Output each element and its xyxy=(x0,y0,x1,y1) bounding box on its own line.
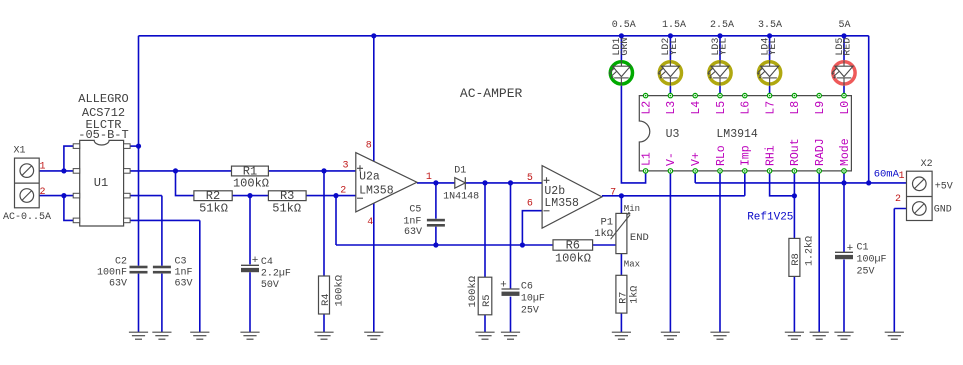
svg-text:100kΩ: 100kΩ xyxy=(467,276,479,308)
wire VCC left vertical to C2 xyxy=(138,36,140,332)
svg-text:U3: U3 xyxy=(666,128,680,141)
wire C1 connection xyxy=(843,183,845,332)
svg-text:25V: 25V xyxy=(521,306,539,317)
svg-text:L1: L1 xyxy=(640,152,653,166)
wire P1 to R7 to ground xyxy=(620,196,622,332)
junction rail LD3 xyxy=(717,33,722,38)
connector X2 xyxy=(907,171,933,220)
svg-text:1kΩ: 1kΩ xyxy=(629,286,641,304)
LED LD3 YEL xyxy=(707,60,731,86)
svg-text:R7: R7 xyxy=(618,292,629,304)
capacitor C1 xyxy=(835,252,853,259)
wire C5 drop xyxy=(435,183,437,245)
wire LD1 cathode to U3 L1 xyxy=(621,86,645,183)
junction R2-R3-C4 xyxy=(247,193,252,198)
svg-text:100kΩ: 100kΩ xyxy=(233,177,269,191)
ground C4 xyxy=(240,332,259,339)
junction VCC U1-pin8 xyxy=(136,144,141,149)
wire LD4 cathode xyxy=(769,86,771,96)
wire R1 to U2a noninverting input xyxy=(268,170,355,172)
pin U3 L8 (top) xyxy=(792,93,796,97)
svg-text:25V: 25V xyxy=(857,267,875,278)
svg-text:L8: L8 xyxy=(789,101,802,115)
junction C5 top xyxy=(433,180,438,185)
svg-text:-05-B-T: -05-B-T xyxy=(78,128,128,142)
svg-text:1.5A: 1.5A xyxy=(662,20,686,31)
capacitor C3 xyxy=(153,266,171,274)
wire U2a feedback vertical xyxy=(335,196,337,245)
svg-text:R4: R4 xyxy=(320,293,332,306)
svg-text:+: + xyxy=(252,255,259,267)
junction U2b pin6 on feedback xyxy=(520,242,525,247)
wire U2a output to D1 xyxy=(417,182,455,184)
wire C4 drop xyxy=(249,196,251,333)
svg-text:5: 5 xyxy=(527,173,533,184)
pin U3 L6 (top) xyxy=(743,93,747,97)
svg-text:Max: Max xyxy=(624,260,640,270)
svg-text:2: 2 xyxy=(340,185,346,196)
svg-text:3: 3 xyxy=(342,160,348,171)
svg-text:1: 1 xyxy=(898,171,904,182)
svg-text:3.5A: 3.5A xyxy=(758,20,782,31)
pin U3 L0 (top) xyxy=(842,93,846,97)
wire R5 drop xyxy=(484,183,486,332)
pin U3 L3 (top) xyxy=(668,93,672,97)
svg-text:L4: L4 xyxy=(690,101,703,115)
svg-text:V+: V+ xyxy=(690,152,703,166)
svg-text:4: 4 xyxy=(367,217,373,228)
diode D1 xyxy=(455,177,466,189)
op-amp U2b xyxy=(542,166,602,229)
svg-text:RADJ: RADJ xyxy=(814,138,827,166)
svg-text:+: + xyxy=(847,243,854,255)
svg-text:1nF: 1nF xyxy=(175,268,193,279)
plus U2a xyxy=(357,165,363,171)
resistor R8 xyxy=(789,238,800,276)
svg-text:V-: V- xyxy=(665,152,678,166)
ground U2a pin4 xyxy=(364,332,383,339)
svg-text:U2a: U2a xyxy=(359,171,380,184)
svg-text:P1: P1 xyxy=(600,217,613,229)
resistor R3 xyxy=(268,191,306,201)
wire +5V horizontal to X2 xyxy=(695,182,906,184)
pin U3 ROut (bottom) xyxy=(792,169,796,173)
LED LD1 GRN xyxy=(609,60,633,86)
wire LD2 cathode xyxy=(669,86,671,96)
plus U2b xyxy=(544,177,550,183)
svg-text:L7: L7 xyxy=(764,101,777,115)
svg-text:L9: L9 xyxy=(814,101,827,115)
wire U1 GND pin xyxy=(130,220,200,332)
junction R5 top xyxy=(482,180,487,185)
minus U2b xyxy=(544,210,550,212)
svg-text:100kΩ: 100kΩ xyxy=(555,252,591,266)
svg-text:100µF: 100µF xyxy=(857,255,887,266)
svg-text:51kΩ: 51kΩ xyxy=(272,201,301,215)
svg-text:1N4148: 1N4148 xyxy=(443,192,479,203)
wire LD1 anode xyxy=(620,36,622,60)
svg-text:X1: X1 xyxy=(14,146,26,157)
svg-text:END: END xyxy=(630,232,649,244)
svg-text:1: 1 xyxy=(39,162,45,173)
svg-text:RED: RED xyxy=(843,38,854,56)
LED LD5 RED xyxy=(831,60,855,86)
junction VIOUT xyxy=(173,168,178,173)
svg-text:Imp: Imp xyxy=(740,145,753,166)
svg-text:51kΩ: 51kΩ xyxy=(199,201,228,215)
svg-text:C6: C6 xyxy=(521,282,533,293)
LED LD2 YEL xyxy=(658,60,682,86)
wire U3 V- to ground xyxy=(669,171,671,332)
wire C6 drop xyxy=(510,183,512,332)
svg-text:RLo: RLo xyxy=(715,145,728,166)
svg-text:GRN: GRN xyxy=(620,38,631,56)
wire U3 RADJ to ground xyxy=(818,171,820,332)
svg-text:63V: 63V xyxy=(404,227,422,238)
svg-text:R5: R5 xyxy=(481,294,493,307)
wire U2a pin4 to ground xyxy=(373,203,375,332)
ground R8 xyxy=(785,332,804,339)
wire D1 cathode to U2b input xyxy=(465,182,542,184)
junction R4 top xyxy=(321,168,326,173)
svg-text:R8: R8 xyxy=(790,253,802,266)
pin U3 L2 (top) xyxy=(643,93,647,97)
capacitor C4 xyxy=(241,265,259,272)
wire X2 GND to ground xyxy=(894,209,906,333)
svg-text:AC-0..5A: AC-0..5A xyxy=(3,212,51,223)
pin U3 L1 (bottom) xyxy=(643,169,647,173)
svg-text:7: 7 xyxy=(610,187,616,198)
potentiometer P1 xyxy=(611,212,631,254)
svg-text:2: 2 xyxy=(895,194,901,205)
resistor R4 xyxy=(319,276,330,314)
wire U3 V+ pin drop xyxy=(694,171,696,183)
junction rail LD2 xyxy=(668,33,673,38)
pin U3 V- (bottom) xyxy=(668,169,672,173)
pin U3 L5 (top) xyxy=(718,93,722,97)
svg-text:U1: U1 xyxy=(94,176,108,190)
wire +5V right rail drop xyxy=(868,36,870,183)
svg-text:ALLEGRO: ALLEGRO xyxy=(78,92,128,106)
svg-text:D1: D1 xyxy=(454,165,466,176)
svg-text:X2: X2 xyxy=(921,159,933,170)
resistor R5 xyxy=(478,277,492,315)
svg-text:6: 6 xyxy=(527,199,533,210)
wire LD4 anode xyxy=(769,36,771,60)
svg-text:+5V: +5V xyxy=(935,182,953,193)
junction rail LD1 xyxy=(619,33,624,38)
svg-text:GND: GND xyxy=(934,205,952,216)
svg-text:AC-AMPER: AC-AMPER xyxy=(460,86,523,101)
svg-text:YEL: YEL xyxy=(768,38,779,56)
svg-text:LM3914: LM3914 xyxy=(716,128,758,141)
svg-text:Ref1V25: Ref1V25 xyxy=(747,212,793,224)
svg-text:1.2kΩ: 1.2kΩ xyxy=(803,236,815,266)
resistor R1 xyxy=(232,166,269,176)
svg-text:C5: C5 xyxy=(409,204,421,215)
pin U3 RLo (bottom) xyxy=(718,169,722,173)
svg-text:Mode: Mode xyxy=(839,138,852,166)
svg-text:1: 1 xyxy=(426,172,432,183)
svg-text:1nF: 1nF xyxy=(403,216,421,227)
junction right rail on +5V xyxy=(866,180,871,185)
pin U3 Mode (bottom) xyxy=(842,169,846,173)
wire R6 to P1 xyxy=(593,244,617,246)
svg-text:50V: 50V xyxy=(261,280,279,291)
resistor R6 xyxy=(553,240,593,250)
resistor R7 xyxy=(616,275,627,313)
svg-text:R6: R6 xyxy=(566,239,580,253)
wire LD2 anode xyxy=(669,36,671,60)
wire LD5 anode xyxy=(843,36,845,60)
ground R7 xyxy=(612,332,631,339)
wire U1 pin8 to VCC xyxy=(130,145,138,147)
wire X1 pin2 to U1 xyxy=(39,196,73,221)
IC U3 LM3914 xyxy=(639,96,851,171)
junction feedback at U2a xyxy=(333,193,338,198)
junction Mode-C1 on +5V xyxy=(841,180,846,185)
wire U2b pin6 xyxy=(522,211,542,245)
svg-text:1kΩ: 1kΩ xyxy=(594,228,613,240)
svg-text:8: 8 xyxy=(366,141,372,152)
svg-text:L5: L5 xyxy=(715,101,728,115)
svg-text:C4: C4 xyxy=(261,257,273,268)
svg-text:100nF: 100nF xyxy=(97,268,127,279)
op-amp U2a xyxy=(356,153,417,212)
wire +5V top rail xyxy=(139,35,869,37)
svg-text:Min: Min xyxy=(624,204,640,214)
LED LD4 YEL xyxy=(757,60,781,86)
ground C6 xyxy=(501,332,520,339)
resistor R2 xyxy=(194,191,232,201)
svg-text:10µF: 10µF xyxy=(521,294,545,305)
capacitor C2 xyxy=(130,266,148,274)
svg-text:C1: C1 xyxy=(857,243,869,254)
wire LD5 cathode xyxy=(843,86,845,96)
svg-text:ROut: ROut xyxy=(789,138,802,166)
junction X1-2 branch xyxy=(61,193,66,198)
svg-text:RHi: RHi xyxy=(764,145,777,166)
wire U3 Mode pin drop xyxy=(843,171,845,183)
svg-text:63V: 63V xyxy=(175,279,193,290)
junction C5 bottom xyxy=(433,242,438,247)
ground C2 xyxy=(129,332,148,339)
pin U3 RHi (bottom) xyxy=(767,169,771,173)
wire U2a pin8 to rail xyxy=(373,36,375,162)
junction rail LD4 xyxy=(767,33,772,38)
pin U3 L4 (top) xyxy=(693,93,697,97)
svg-text:YEL: YEL xyxy=(669,38,680,56)
svg-text:L0: L0 xyxy=(839,101,852,115)
pin U3 L7 (top) xyxy=(767,93,771,97)
svg-text:L2: L2 xyxy=(640,101,653,115)
svg-text:YEL: YEL xyxy=(719,38,730,56)
wire U3 RHi to ROut xyxy=(770,171,795,196)
ground R4 xyxy=(314,332,333,339)
ground U3 V- xyxy=(661,332,680,339)
wire LD3 anode xyxy=(719,36,721,60)
wire U3 ROut to R8 xyxy=(793,171,795,332)
pin U3 Imp (bottom) xyxy=(743,169,747,173)
wire feedback line to R6 xyxy=(336,244,553,246)
ground U3 RADJ xyxy=(810,332,829,339)
wire R2 to R3 xyxy=(232,195,268,197)
junction rail LD5 xyxy=(841,33,846,38)
svg-text:LM358: LM358 xyxy=(359,185,394,198)
svg-text:L6: L6 xyxy=(740,101,753,115)
wire VIOUT branch to R2 xyxy=(176,171,194,196)
minus U2a xyxy=(357,197,363,199)
svg-text:2: 2 xyxy=(39,187,45,198)
capacitor C6 xyxy=(502,289,520,296)
pin U3 RADJ (bottom) xyxy=(817,169,821,173)
svg-text:2.2µF: 2.2µF xyxy=(261,269,291,280)
svg-text:U2b: U2b xyxy=(544,185,565,198)
ground R5 xyxy=(475,332,494,339)
svg-text:L3: L3 xyxy=(665,101,678,115)
svg-text:C2: C2 xyxy=(115,256,127,267)
wire U1 VIOUT to R1 xyxy=(130,170,231,172)
wire X1 pin1 to U1 xyxy=(39,146,73,171)
svg-text:2.5A: 2.5A xyxy=(710,20,734,31)
junction RHi-ROut xyxy=(792,193,797,198)
junction X1-1 branch xyxy=(61,168,66,173)
junction rail U2a-pin8 xyxy=(371,33,376,38)
svg-text:+: + xyxy=(500,280,507,292)
svg-text:LM358: LM358 xyxy=(544,197,579,210)
svg-text:0.5A: 0.5A xyxy=(612,20,636,31)
wire Imp pin rise xyxy=(744,171,746,196)
IC U1 ACS712 xyxy=(73,140,130,226)
ground U1 GND xyxy=(190,332,209,339)
ground C3 xyxy=(152,332,171,339)
ground U3 RLo xyxy=(710,332,729,339)
wire U1 FILTER to C3 xyxy=(130,196,162,333)
pin U3 L9 (top) xyxy=(817,93,821,97)
wire R3 to U2a inverting input xyxy=(306,195,356,197)
junction P1 top on output xyxy=(619,193,624,198)
capacitor C5 xyxy=(427,219,445,227)
svg-text:C3: C3 xyxy=(175,256,187,267)
svg-text:100kΩ: 100kΩ xyxy=(334,275,346,307)
connector X1 xyxy=(15,158,40,208)
svg-text:63V: 63V xyxy=(109,279,127,290)
wire U2b output to Imp xyxy=(602,195,745,197)
wire LD3 cathode xyxy=(719,86,721,96)
ground C1 xyxy=(834,332,853,339)
svg-text:60mA: 60mA xyxy=(874,169,900,181)
wire R4 drop xyxy=(323,171,325,332)
pin U3 V+ (bottom) xyxy=(693,169,697,173)
junction C6 top xyxy=(508,180,513,185)
svg-text:5A: 5A xyxy=(839,20,851,31)
wire U3 RLo to ground xyxy=(719,171,721,332)
ground X2 GND xyxy=(885,332,904,339)
